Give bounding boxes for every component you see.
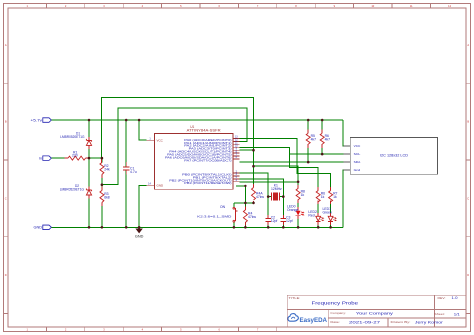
svg-text:12pf: 12pf bbox=[271, 219, 278, 223]
wire R5 bottom lead to SDA bbox=[307, 144, 309, 162]
svg-text:8: 8 bbox=[295, 4, 297, 8]
svg-text:4: 4 bbox=[142, 4, 144, 8]
wire In to R1 bbox=[51, 157, 68, 159]
diode D2 bbox=[86, 189, 91, 196]
frame ruler numbers top bbox=[26, 4, 451, 8]
EasyEDA logo cloud bbox=[288, 314, 298, 322]
resistor R2 bbox=[100, 163, 104, 175]
svg-text:1k: 1k bbox=[301, 193, 305, 197]
resistor R3 bbox=[100, 191, 104, 203]
svg-text:9: 9 bbox=[334, 4, 336, 8]
svg-text:2: 2 bbox=[65, 328, 67, 332]
svg-text:REV:: REV: bbox=[438, 296, 446, 300]
LED LED1 green bbox=[328, 216, 336, 221]
svg-text:12pf: 12pf bbox=[286, 219, 293, 223]
svg-text:ON: ON bbox=[220, 205, 226, 209]
svg-text:47kw: 47kw bbox=[248, 215, 256, 219]
svg-text:4k7: 4k7 bbox=[325, 138, 331, 142]
svg-text:5: 5 bbox=[180, 4, 182, 8]
resistor R8 bbox=[296, 188, 300, 199]
wire crystal right lead bbox=[280, 196, 284, 198]
svg-text:1: 1 bbox=[26, 328, 28, 332]
svg-text:1k: 1k bbox=[333, 195, 337, 199]
wire R6b bottom lead bbox=[317, 201, 319, 217]
wire PB2 to crystal bbox=[240, 179, 284, 197]
svg-text:D: D bbox=[467, 273, 469, 277]
wire R1 to R2 junction bbox=[86, 157, 102, 159]
svg-text:24k: 24k bbox=[104, 167, 110, 171]
wire R6 bottom lead to SCL bbox=[321, 144, 323, 154]
IC U1 box bbox=[155, 133, 233, 189]
svg-text:SDA: SDA bbox=[354, 160, 362, 164]
svg-text:Gnd: Gnd bbox=[354, 168, 361, 172]
LCD module pin names bbox=[354, 144, 362, 172]
wire LCD VCC drop bbox=[343, 120, 350, 146]
capacitor C1 bbox=[123, 162, 129, 175]
svg-text:B: B bbox=[5, 120, 7, 124]
svg-text:TITLE:: TITLE: bbox=[289, 296, 301, 300]
wire R2 bottom lead bbox=[101, 175, 103, 185]
svg-text:Green: Green bbox=[323, 210, 333, 214]
svg-text:5: 5 bbox=[180, 328, 182, 332]
frame ruler ticks top bbox=[46, 4, 430, 9]
resistor R4a bbox=[243, 210, 247, 223]
svg-text:Sheet:: Sheet: bbox=[434, 312, 445, 316]
IC U1 pin 1 VCC bbox=[147, 139, 155, 141]
svg-text:PA7 (PCINT7/OC0B/ADC7): PA7 (PCINT7/OC0B/ADC7) bbox=[184, 158, 231, 162]
svg-text:K2:3.6=0.1_SMD: K2:3.6=0.1_SMD bbox=[197, 215, 232, 219]
svg-text:Company:: Company: bbox=[330, 311, 346, 315]
svg-text:10: 10 bbox=[371, 4, 374, 8]
svg-text:1.0: 1.0 bbox=[452, 296, 458, 300]
svg-text:C: C bbox=[5, 196, 7, 200]
svg-text:VCC: VCC bbox=[354, 144, 361, 148]
wire D1 bottom lead bbox=[88, 145, 90, 158]
wire switch bottom lead bbox=[233, 222, 235, 227]
svg-text:Orange: Orange bbox=[287, 208, 298, 212]
frame ruler letters right bbox=[467, 43, 469, 277]
svg-text:GND: GND bbox=[135, 235, 144, 239]
svg-text:220: 220 bbox=[72, 154, 78, 158]
wire +5.7v rail bbox=[51, 119, 343, 121]
svg-text:11: 11 bbox=[410, 4, 413, 8]
svg-text:47kw: 47kw bbox=[256, 195, 264, 199]
svg-text:1/1: 1/1 bbox=[454, 312, 460, 316]
svg-text:4k7: 4k7 bbox=[311, 138, 317, 142]
wire switch top lead bbox=[233, 203, 235, 207]
wire R6 top lead bbox=[321, 120, 323, 133]
resistor R7 bbox=[329, 191, 333, 202]
svg-text:B: B bbox=[467, 120, 469, 124]
svg-text:2021-09-27: 2021-09-27 bbox=[349, 320, 380, 324]
wire to LED2 resistor R6b bbox=[289, 154, 318, 190]
svg-text:I2C 128x32 LCD: I2C 128x32 LCD bbox=[380, 154, 409, 158]
wire R4A bottom lead bbox=[253, 201, 255, 203]
net port GND bbox=[43, 225, 52, 230]
wire C3 bottom lead bbox=[282, 221, 284, 227]
wire R4a top lead bbox=[244, 203, 246, 210]
svg-text:Date:: Date: bbox=[330, 320, 340, 324]
net port +5.7v bbox=[43, 118, 52, 123]
svg-text:1k: 1k bbox=[321, 195, 325, 199]
svg-text:EasyEDA: EasyEDA bbox=[300, 317, 328, 324]
wire C2 top lead bbox=[267, 197, 269, 219]
capacitor C3 bbox=[281, 218, 287, 221]
wire D2 top lead bbox=[88, 158, 90, 190]
svg-text:C: C bbox=[467, 196, 469, 200]
crystal K1 bbox=[271, 193, 279, 201]
ground symbol bbox=[136, 227, 142, 232]
svg-text:4: 4 bbox=[142, 328, 144, 332]
IC U1 pin 14 GND bbox=[147, 184, 155, 186]
wire crystal left lead bbox=[268, 196, 271, 198]
frame ruler letters left bbox=[5, 43, 7, 277]
svg-text:6k8: 6k8 bbox=[104, 195, 110, 199]
svg-text:7: 7 bbox=[257, 328, 259, 332]
svg-text:1: 1 bbox=[26, 4, 28, 8]
wire PA4 stub bbox=[240, 149, 254, 151]
wire C1 top lead bbox=[125, 120, 127, 167]
svg-text:6: 6 bbox=[218, 328, 220, 332]
wire D2 bottom lead bbox=[88, 195, 90, 227]
switch K2 bbox=[233, 207, 237, 222]
wire switch net bbox=[234, 202, 254, 204]
wire R5 top lead bbox=[307, 120, 309, 133]
svg-text:12: 12 bbox=[448, 4, 451, 8]
wire PA3 to SCL jog bbox=[240, 147, 290, 154]
svg-text:SCL: SCL bbox=[354, 152, 361, 156]
svg-text:6: 6 bbox=[218, 4, 220, 8]
wire D1 top lead bbox=[88, 120, 90, 140]
wire R3 top lead bbox=[101, 185, 103, 191]
svg-text:Red: Red bbox=[308, 213, 314, 217]
junction dots bbox=[88, 119, 332, 229]
wire LCD Gnd riser bbox=[343, 170, 350, 227]
frame ruler ticks bottom bbox=[46, 327, 276, 332]
resistor R6b bbox=[316, 191, 320, 202]
wire LED2 bottom lead bbox=[317, 221, 319, 227]
wire R2 top lead bbox=[101, 158, 103, 162]
svg-text:2: 2 bbox=[65, 4, 67, 8]
svg-text:A: A bbox=[467, 43, 469, 47]
wire input net to R8 bbox=[254, 166, 299, 188]
svg-text:VCC: VCC bbox=[157, 138, 164, 142]
svg-text:In: In bbox=[39, 157, 42, 161]
svg-text:Jerry Komor: Jerry Komor bbox=[415, 320, 444, 324]
wire SCL bbox=[289, 153, 350, 155]
wire R7 bottom lead bbox=[330, 201, 332, 217]
component red lead segments bbox=[65, 130, 331, 226]
svg-text:LMBR0520ET1G: LMBR0520ET1G bbox=[60, 187, 85, 191]
IC U1 right pin stubs bbox=[233, 139, 240, 182]
wire SDA bbox=[240, 161, 351, 163]
LCD module pin stubs bbox=[343, 146, 350, 170]
svg-text:PB3 (PCINT11/RESET/dW): PB3 (PCINT11/RESET/dW) bbox=[184, 181, 231, 185]
svg-text:D: D bbox=[5, 273, 7, 277]
svg-text:12MHz: 12MHz bbox=[271, 187, 282, 191]
IC U1 right pin numbers bbox=[235, 136, 238, 182]
wire C2 bottom lead bbox=[267, 221, 269, 227]
wire C3 top lead bbox=[282, 197, 284, 219]
LCD module box bbox=[350, 138, 437, 175]
wire switch feeder bbox=[236, 186, 245, 203]
wire divider tap to PA1 bbox=[102, 108, 247, 185]
resistor R5 bbox=[306, 133, 310, 144]
wire PB3 to R8 net bbox=[240, 181, 298, 183]
wire C1 bottom lead bbox=[125, 170, 127, 227]
wire R3 bottom lead bbox=[101, 203, 103, 228]
svg-text:ATTINY84A-SSFR: ATTINY84A-SSFR bbox=[187, 129, 222, 133]
wire R8 bottom lead bbox=[297, 200, 299, 211]
diode D1 bbox=[86, 139, 91, 145]
svg-text:Drawn By:: Drawn By: bbox=[391, 320, 411, 324]
capacitor C2 bbox=[265, 218, 271, 221]
svg-text:Your Company: Your Company bbox=[356, 311, 393, 315]
svg-text:3: 3 bbox=[103, 328, 105, 332]
net port In bbox=[43, 156, 52, 161]
LED LED0 orange bbox=[296, 211, 304, 216]
title block bbox=[287, 295, 466, 327]
wire LED0 bottom lead bbox=[297, 216, 299, 228]
LED LED2 red bbox=[316, 216, 323, 221]
wire LED1 bottom lead bbox=[330, 221, 332, 227]
wire PA0 to R7 bbox=[240, 139, 331, 191]
svg-text:A: A bbox=[5, 43, 7, 47]
wire GND rail bbox=[51, 226, 343, 228]
wire VCC pin bbox=[139, 120, 147, 140]
resistor R4A bbox=[252, 188, 256, 201]
resistor R1 bbox=[68, 156, 86, 160]
svg-text:GND: GND bbox=[34, 226, 43, 230]
resistor R6 bbox=[320, 133, 324, 144]
svg-text:GND: GND bbox=[157, 184, 165, 188]
svg-text:3: 3 bbox=[103, 4, 105, 8]
wire R4a bottom lead bbox=[244, 222, 246, 227]
IC U1 pin names bbox=[165, 138, 232, 185]
svg-text:+5.7v: +5.7v bbox=[31, 118, 43, 122]
svg-text:Frequency Probe: Frequency Probe bbox=[312, 301, 359, 306]
frame ruler ticks right bbox=[466, 83, 471, 313]
svg-text:4.7u: 4.7u bbox=[130, 170, 137, 174]
svg-text:7: 7 bbox=[257, 4, 259, 8]
frame ruler numbers bottom bbox=[26, 328, 258, 332]
frame ruler ticks left bbox=[4, 83, 9, 313]
wire PB0 to crystal bbox=[240, 173, 269, 197]
wire GND pin bbox=[139, 185, 147, 227]
wire input net to PA4 and R4A bbox=[102, 97, 254, 187]
svg-text:LMBR0520ET1G: LMBR0520ET1G bbox=[60, 135, 85, 139]
